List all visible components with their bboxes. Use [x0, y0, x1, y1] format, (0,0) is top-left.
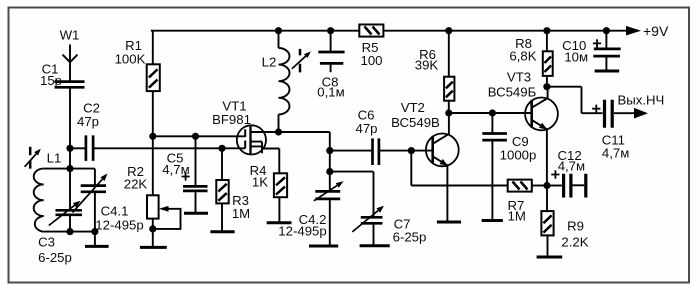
wire R1-R2 vertical: [152, 31, 154, 196]
svg-text:ВС549В: ВС549В: [391, 115, 440, 130]
ground tank: [85, 245, 109, 248]
wire +9V rail: [151, 30, 628, 32]
wire C1 to tank: [69, 87, 71, 210]
svg-text:1K: 1K: [252, 175, 268, 190]
svg-text:C3: C3: [38, 235, 55, 250]
node C7 tap: [326, 168, 333, 175]
svg-text:1000p: 1000p: [500, 148, 537, 163]
wire mid vertical: [329, 132, 331, 191]
wire gate2 line: [153, 135, 245, 137]
svg-text:0,1м: 0,1м: [317, 85, 344, 100]
capacitor C10: [562, 31, 621, 71]
svg-text:100K: 100K: [115, 52, 146, 67]
svg-text:L2: L2: [262, 55, 277, 70]
node R2 bottom junction: [149, 225, 156, 232]
node rail C10: [603, 27, 610, 34]
node A C2 junction: [66, 145, 73, 152]
ground C4.2: [309, 245, 338, 248]
svg-text:ВС549Б: ВС549Б: [488, 85, 537, 100]
node rail R8: [543, 27, 550, 34]
svg-text:39K: 39K: [415, 58, 439, 73]
wire tank bottom: [44, 232, 95, 247]
svg-text:47p: 47p: [77, 114, 99, 129]
svg-text:R9: R9: [567, 219, 584, 234]
wire tank top: [44, 168, 95, 170]
node output arrow: [614, 93, 664, 119]
ground VT2 emitter: [437, 221, 461, 224]
capacitor C8: [317, 31, 344, 100]
svg-text:12-495p: 12-495p: [278, 224, 326, 239]
svg-text:4,7м: 4,7м: [558, 159, 585, 174]
svg-text:6,8K: 6,8K: [509, 49, 536, 64]
svg-text:4,7м: 4,7м: [602, 146, 629, 161]
resistor R6: [415, 31, 455, 113]
resistor R5: [359, 25, 383, 69]
trimmer mark L1: [25, 147, 41, 169]
wire R2 wiper loop: [153, 206, 181, 229]
svg-text:VT3: VT3: [507, 70, 531, 85]
ground R4: [267, 221, 292, 224]
resistor R3: [216, 148, 250, 231]
svg-text:1M: 1M: [508, 209, 526, 224]
svg-text:BF981: BF981: [212, 112, 251, 127]
svg-text:Вых.НЧ: Вых.НЧ: [618, 93, 665, 108]
node gate2/R1 junction: [149, 133, 156, 140]
svg-text:100: 100: [360, 53, 382, 68]
inductor L2: [262, 31, 290, 132]
wire R2 bottom: [152, 219, 154, 248]
capacitor C6: [330, 108, 433, 166]
node R6 VT2 collector: [445, 109, 452, 116]
resistor R7: [508, 180, 548, 224]
svg-text:W1: W1: [60, 28, 80, 43]
ground C7: [360, 244, 390, 247]
capacitor C1: [40, 62, 85, 89]
inductor L1: [34, 151, 62, 232]
wire VT1 drain: [251, 131, 330, 133]
svg-text:10м: 10м: [564, 50, 588, 65]
svg-text:22K: 22K: [124, 177, 148, 192]
svg-text:C4.1: C4.1: [101, 204, 129, 219]
transistor VT2: [391, 100, 459, 222]
resistor R9: [541, 186, 588, 257]
ground R2: [140, 246, 167, 249]
antenna W1: [60, 28, 80, 82]
svg-text:6-25p: 6-25p: [393, 230, 427, 245]
node VT2 base tap: [408, 147, 415, 154]
ground C5: [184, 212, 208, 215]
potentiometer R2: [124, 164, 159, 219]
capacitor C9: [482, 113, 536, 220]
svg-text:12-495p: 12-495p: [95, 218, 143, 233]
node R3 tap: [218, 145, 225, 152]
ground R9: [537, 256, 563, 259]
ground C9: [482, 219, 503, 222]
node +9V arrow: [626, 23, 669, 39]
node rail R6: [445, 27, 452, 34]
variable capacitor C7: [330, 172, 427, 246]
capacitor C11: [592, 100, 629, 161]
node emitter VT3 junction: [543, 182, 550, 189]
variable capacitor C4.1: [73, 169, 144, 233]
svg-text:VT2: VT2: [401, 100, 425, 115]
ground C10: [595, 70, 620, 73]
svg-text:+9V: +9V: [643, 23, 669, 39]
node tank bottom right: [91, 228, 98, 235]
svg-text:L1: L1: [47, 151, 62, 166]
transistor VT1 dual-gate MOSFET: [212, 99, 279, 155]
wire VT3 base line: [449, 112, 532, 114]
node rail L2: [275, 27, 282, 34]
resistor R1: [115, 38, 160, 91]
trimmer mark L2: [292, 49, 311, 73]
svg-text:6-25p: 6-25p: [38, 250, 72, 265]
node tank top: [66, 165, 73, 172]
capacitor C5: [162, 136, 207, 213]
wire VT2 base to R7: [411, 151, 507, 186]
resistor R4: [250, 149, 288, 223]
resistor R8: [509, 31, 552, 87]
node C9 tap: [489, 109, 496, 116]
svg-text:15p: 15p: [40, 73, 62, 88]
capacitor C2: [70, 101, 100, 161]
svg-text:1M: 1M: [232, 206, 250, 221]
node tank bottom left: [66, 228, 73, 235]
variable capacitor C4.2: [278, 181, 343, 246]
wire gate1 line: [94, 147, 245, 149]
node L2 bottom: [275, 128, 282, 135]
transistor VT3: [488, 70, 558, 186]
node rail C8: [327, 27, 334, 34]
variable capacitor C3: [38, 201, 82, 265]
svg-text:2.2K: 2.2K: [561, 235, 588, 250]
node VT3 collector: [543, 83, 550, 90]
capacitor C12: [547, 148, 586, 198]
svg-text:47p: 47p: [355, 121, 377, 136]
ground R3: [210, 230, 234, 233]
node C6 tap: [326, 147, 333, 154]
node C5 tap: [192, 133, 199, 140]
wire collector to C11: [547, 87, 603, 114]
